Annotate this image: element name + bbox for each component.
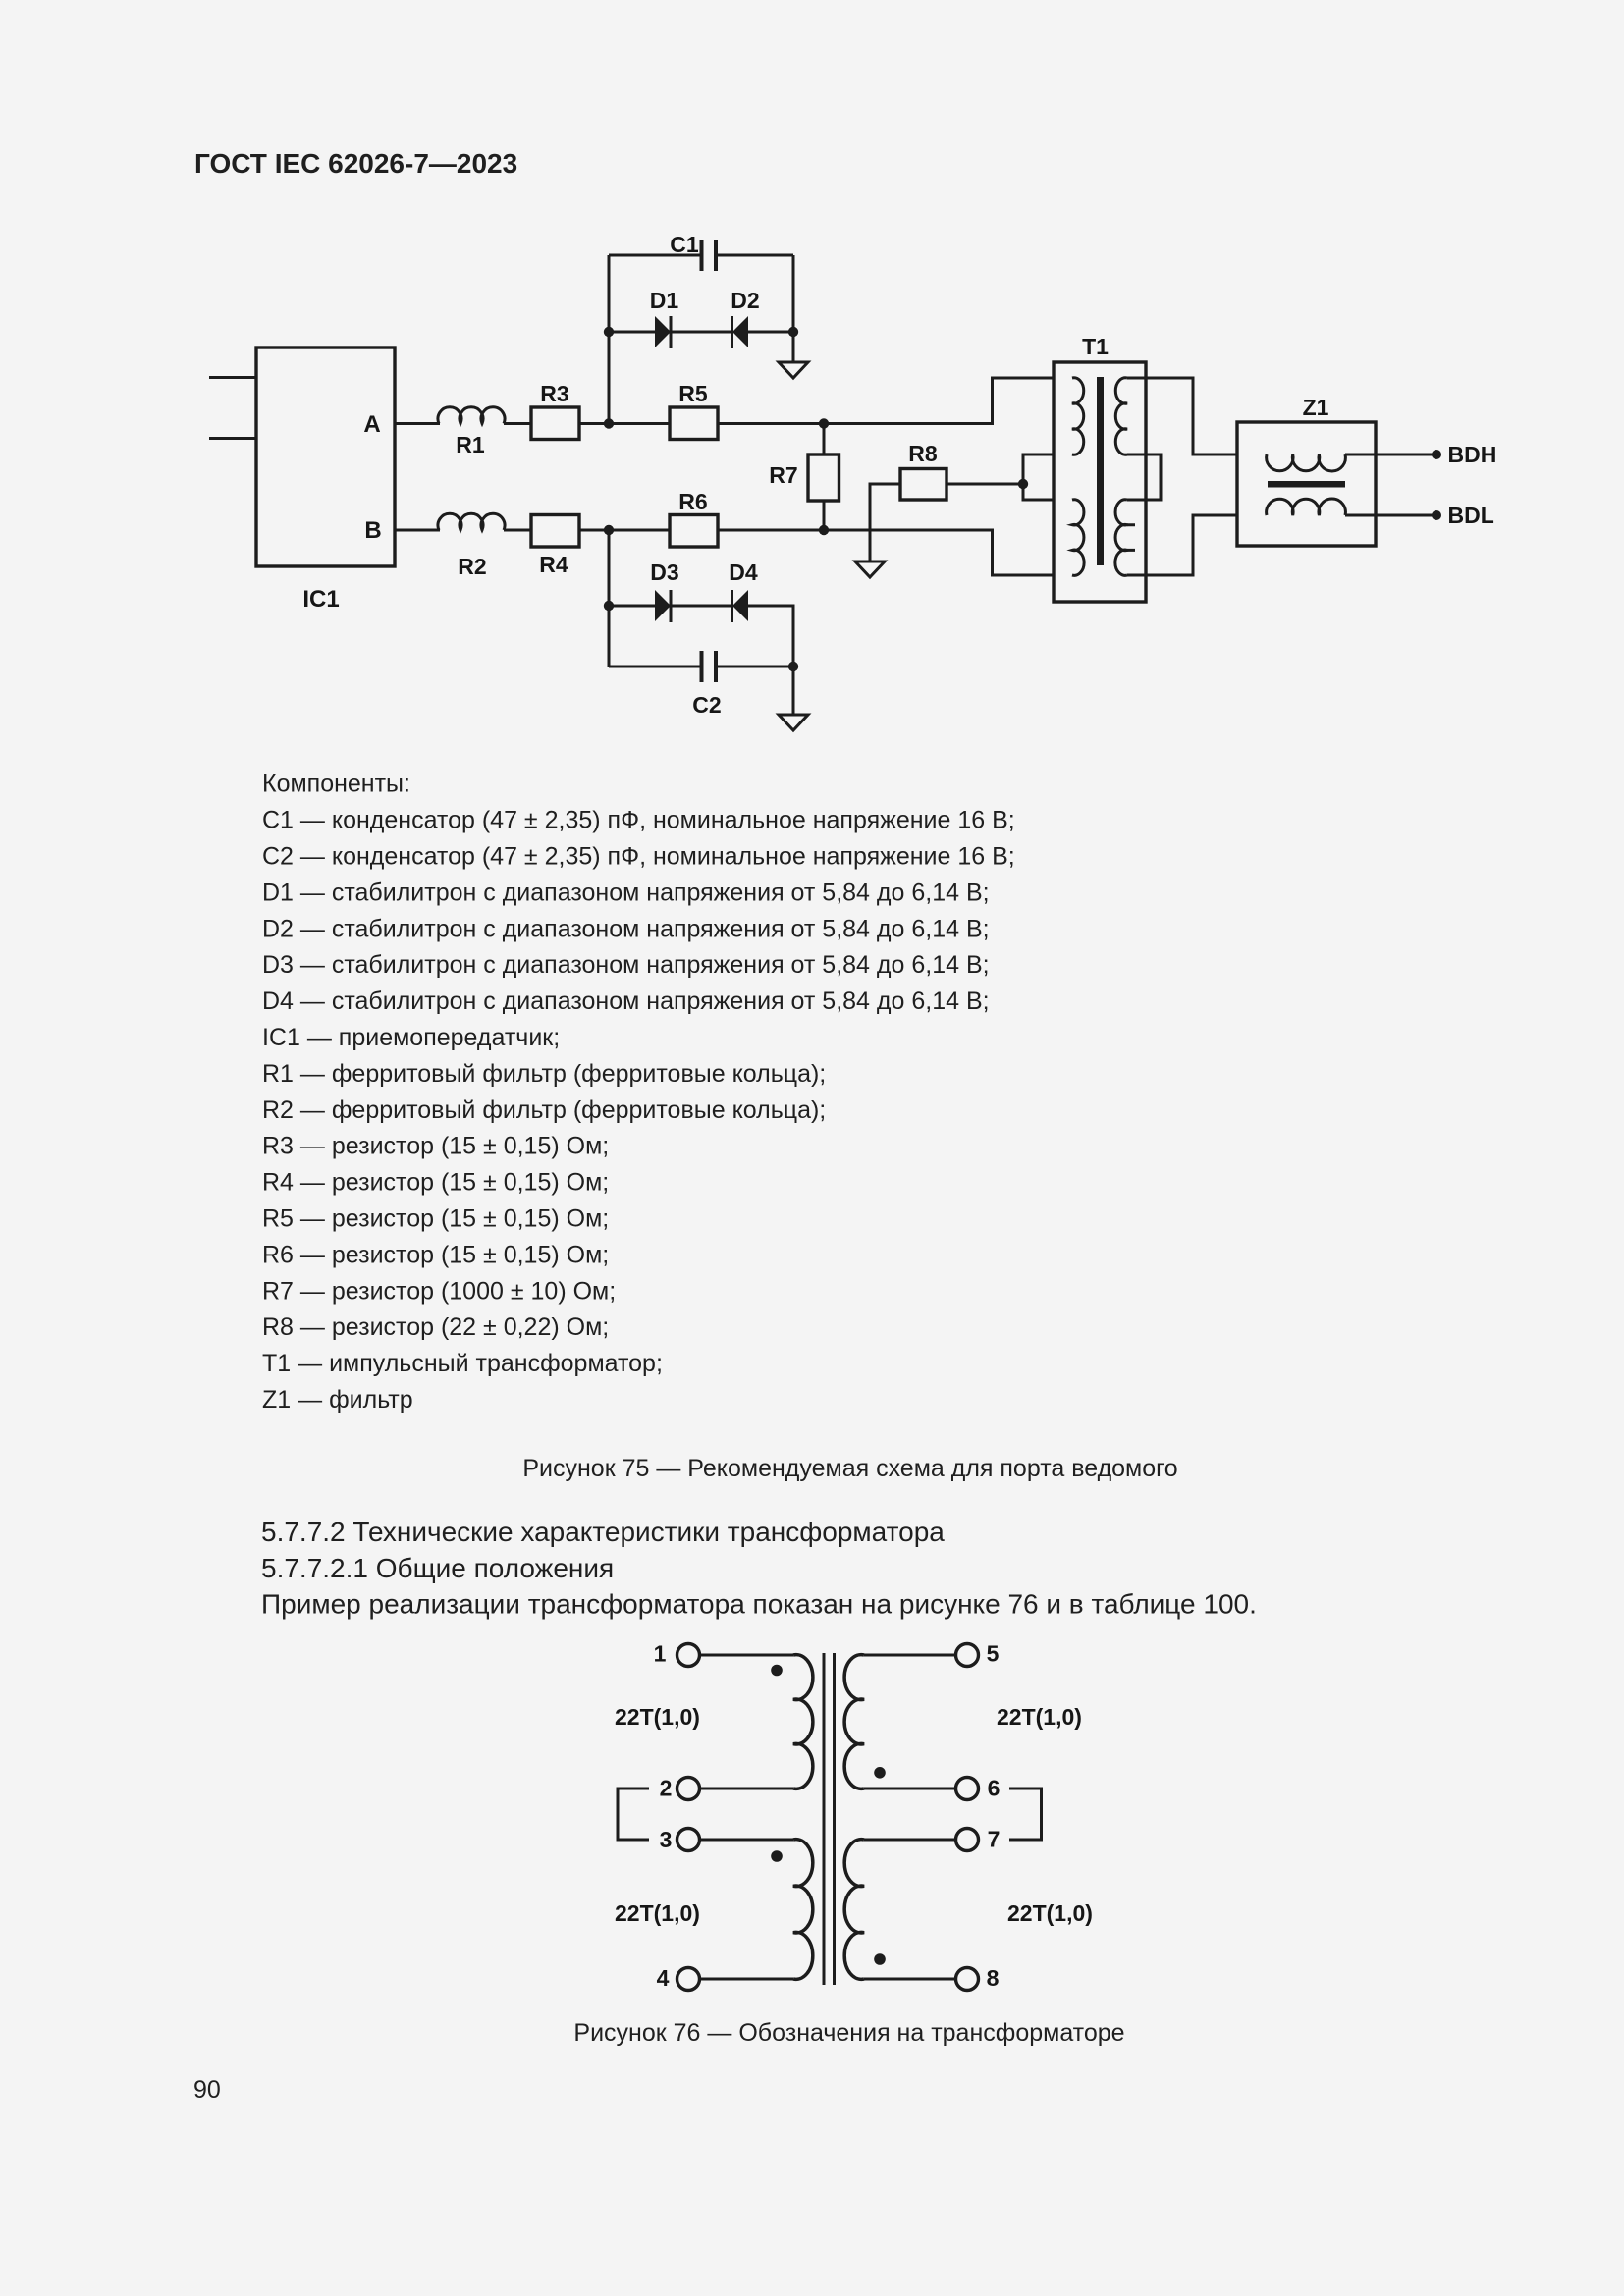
wire R6 to T1 corner: [718, 529, 994, 532]
wire T1 secondary bottom to Z1: [1127, 515, 1267, 575]
wire jumper bracket pins 2-3: [618, 1789, 649, 1840]
svg-text:R7: R7: [769, 462, 797, 488]
svg-text:Рисунок 75 — Рекомендуемая схе: Рисунок 75 — Рекомендуемая схема для пор…: [522, 1455, 1177, 1482]
wire IC1 input stub top: [209, 376, 256, 379]
polarity dot winding 3-4: [771, 1850, 783, 1862]
svg-text:D4 — стабилитрон с диапазоном: D4 — стабилитрон с диапазоном напряжения…: [262, 988, 990, 1015]
wire IC1 input stub bottom: [209, 437, 256, 440]
winding 1-2 (22T): [793, 1655, 813, 1789]
svg-text:2: 2: [660, 1776, 673, 1801]
svg-text:Рисунок 76 — Обозначения на тр: Рисунок 76 — Обозначения на трансформато…: [573, 2019, 1124, 2047]
resistor R7: [769, 424, 839, 531]
svg-text:R3: R3: [540, 381, 568, 406]
svg-text:1: 1: [654, 1641, 667, 1667]
pin 3 terminal: [660, 1827, 700, 1852]
svg-text:R2 — ферритовый фильтр (феррит: R2 — ферритовый фильтр (ферритовые кольц…: [262, 1096, 826, 1124]
svg-text:IC1 — приемопередатчик;: IC1 — приемопередатчик;: [262, 1024, 560, 1051]
svg-text:R4: R4: [539, 552, 568, 577]
winding 3-4 (22T): [793, 1840, 813, 1980]
wire pin5 to winding: [864, 1654, 956, 1657]
pin 1 terminal: [654, 1641, 700, 1667]
wire R4 to R6: [579, 529, 670, 532]
svg-text:R3 — резистор (15 ± 0,15) Ом;: R3 — резистор (15 ± 0,15) Ом;: [262, 1133, 609, 1160]
svg-text:R6: R6: [678, 489, 707, 514]
wire R3 to R5: [579, 422, 670, 425]
filter Z1: [1237, 395, 1376, 546]
resistor R8: [900, 441, 947, 500]
svg-text:Компоненты:: Компоненты:: [262, 771, 410, 798]
svg-text:8: 8: [987, 1965, 1000, 1991]
wire jumper bracket pins 6-7: [1009, 1789, 1042, 1840]
wire R1 to R3: [504, 422, 531, 425]
polarity dot winding 7-8: [874, 1953, 886, 1965]
svg-text:R6 — резистор (15 ± 0,15) Ом;: R6 — резистор (15 ± 0,15) Ом;: [262, 1241, 609, 1268]
svg-text:C1 — конденсатор (47 ± 2,35) п: C1 — конденсатор (47 ± 2,35) пФ, номинал…: [262, 807, 1015, 834]
wire Z1 to BDL: [1345, 514, 1434, 517]
wire R2 to R4: [504, 529, 531, 532]
transceiver IC1: [256, 347, 395, 613]
svg-text:D2: D2: [731, 288, 759, 313]
resistor R6: [670, 489, 718, 547]
svg-text:R2: R2: [458, 554, 486, 579]
pin 2 terminal: [660, 1776, 700, 1801]
svg-text:A: A: [363, 411, 380, 438]
svg-text:7: 7: [988, 1827, 1001, 1852]
wire T1 primary centre-tap bracket: [1023, 454, 1072, 500]
wire node to D1: [609, 331, 655, 334]
svg-text:R4 — резистор (15 ± 0,15) Ом;: R4 — резистор (15 ± 0,15) Ом;: [262, 1169, 609, 1197]
svg-text:IC1: IC1: [302, 586, 339, 613]
wire pin2 to winding: [700, 1788, 794, 1790]
svg-text:T1 — импульсный трансформатор;: T1 — импульсный трансформатор;: [262, 1350, 663, 1377]
wire node to D3: [609, 605, 655, 608]
svg-text:R1 — ферритовый фильтр (феррит: R1 — ферритовый фильтр (ферритовые кольц…: [262, 1060, 826, 1088]
svg-text:C1: C1: [670, 232, 699, 257]
svg-text:4: 4: [657, 1965, 670, 1991]
svg-text:D3 — стабилитрон с диапазоном: D3 — стабилитрон с диапазоном напряжения…: [262, 951, 990, 979]
wire pin4 to winding: [700, 1978, 794, 1981]
capacitor C2: [609, 651, 793, 718]
svg-text:D1 — стабилитрон с диапазоном: D1 — стабилитрон с диапазоном напряжения…: [262, 879, 990, 906]
wire IC1 pin A to R1: [395, 422, 440, 425]
svg-text:C2: C2: [692, 692, 721, 718]
resistor R4: [531, 515, 579, 578]
wire pin3 to winding: [700, 1839, 794, 1842]
wire to ground 2: [792, 667, 795, 715]
wire R8 left to ground drop: [870, 484, 900, 561]
svg-text:22Т(1,0): 22Т(1,0): [1007, 1900, 1093, 1926]
winding 5-6 (22T): [844, 1655, 864, 1789]
svg-text:R1: R1: [456, 432, 485, 457]
polarity dot winding 1-2: [771, 1665, 783, 1677]
svg-text:D2 — стабилитрон с диапазоном: D2 — стабилитрон с диапазоном напряжения…: [262, 915, 990, 942]
capacitor C1: [609, 232, 793, 271]
wire C1 right vertical: [792, 255, 795, 332]
svg-text:BDH: BDH: [1448, 442, 1497, 467]
wire D2 to ground branch: [748, 331, 793, 334]
svg-text:Пример реализации трансформато: Пример реализации трансформатора показан…: [261, 1589, 1257, 1620]
zener diode D4: [729, 560, 758, 622]
pin 4 terminal: [657, 1965, 700, 1991]
wire T1 secondary top to Z1: [1127, 378, 1267, 454]
resistor R5: [670, 381, 718, 440]
svg-text:22Т(1,0): 22Т(1,0): [615, 1704, 700, 1730]
svg-text:5: 5: [987, 1641, 1000, 1667]
node junction A-R7: [819, 418, 829, 428]
svg-text:R7 — резистор (1000 ± 10) Ом;: R7 — резистор (1000 ± 10) Ом;: [262, 1277, 616, 1305]
pin 8 terminal: [956, 1965, 1000, 1991]
ground symbol 2: [779, 715, 808, 730]
zener diode D2: [731, 288, 759, 348]
wire B down to T1 primary bottom: [993, 530, 1073, 575]
svg-text:3: 3: [660, 1827, 673, 1852]
svg-text:Z1: Z1: [1303, 395, 1329, 420]
svg-text:D4: D4: [729, 560, 758, 585]
node junction centre tap: [1018, 479, 1028, 489]
ground symbol 1: [779, 362, 808, 378]
wire D4 to C2 right vertical: [748, 606, 793, 667]
node junction D3 anode: [604, 601, 614, 611]
wire R5 to T1 corner: [718, 422, 994, 425]
svg-text:R5 — резистор (15 ± 0,15) Ом;: R5 — резистор (15 ± 0,15) Ом;: [262, 1205, 609, 1233]
wire to ground 1: [792, 332, 795, 362]
winding 7-8 (22T): [844, 1840, 864, 1980]
svg-text:BDL: BDL: [1448, 503, 1494, 528]
wire D3 to D4: [671, 605, 731, 608]
wire pin8 to winding: [864, 1978, 956, 1981]
wire pin6 to winding: [864, 1788, 956, 1790]
wire A up to T1 primary top: [993, 378, 1073, 424]
svg-text:B: B: [364, 517, 381, 544]
transformer core: [824, 1653, 835, 1985]
zener diode D1: [650, 288, 679, 348]
ground symbol 3: [855, 561, 885, 577]
svg-text:R8 — резистор (22 ± 0,22) Ом;: R8 — резистор (22 ± 0,22) Ом;: [262, 1313, 609, 1341]
node junction C2-ground: [788, 662, 798, 671]
pin 6 terminal: [956, 1776, 1001, 1801]
svg-text:90: 90: [193, 2076, 221, 2104]
resistor R3: [531, 381, 579, 440]
wire Z1 to BDH: [1345, 454, 1434, 456]
wire pin1 to winding: [700, 1654, 794, 1657]
svg-text:22Т(1,0): 22Т(1,0): [615, 1900, 700, 1926]
svg-text:5.7.7.2.1 Общие положения: 5.7.7.2.1 Общие положения: [261, 1553, 614, 1583]
ferrite filter R1: [438, 407, 505, 457]
zener diode D3: [650, 560, 678, 622]
ferrite filter R2: [438, 513, 505, 579]
wire D1 to D2: [671, 331, 731, 334]
wire node A to C1/D1 branch (left vertical): [608, 255, 611, 424]
node junction A-R3: [604, 418, 614, 428]
node junction D1 anode: [604, 327, 614, 337]
svg-text:ГОСТ IEC 62026-7—2023: ГОСТ IEC 62026-7—2023: [194, 148, 517, 179]
node junction D2 cathode: [788, 327, 798, 337]
pin 5 terminal: [956, 1641, 1000, 1667]
wire node B to D3/C2 branch (left vertical): [608, 530, 611, 667]
wire R8 to T1 centre tap: [947, 483, 1023, 486]
svg-text:6: 6: [988, 1776, 1001, 1801]
svg-text:Z1 — фильтр: Z1 — фильтр: [262, 1386, 413, 1414]
svg-text:R5: R5: [678, 381, 708, 406]
svg-text:D1: D1: [650, 288, 679, 313]
node BDL terminal: [1432, 510, 1441, 520]
svg-text:R8: R8: [908, 441, 938, 466]
svg-text:D3: D3: [650, 560, 678, 585]
node BDH terminal: [1432, 450, 1441, 459]
svg-text:5.7.7.2 Технические характерис: 5.7.7.2 Технические характеристики транс…: [261, 1517, 945, 1547]
wire T1 secondary bracket: [1127, 454, 1161, 500]
wire pin7 to winding: [864, 1839, 956, 1842]
svg-text:T1: T1: [1082, 334, 1109, 359]
wire IC1 pin B to R2: [395, 529, 440, 532]
pin 7 terminal: [956, 1827, 1001, 1852]
svg-text:22Т(1,0): 22Т(1,0): [997, 1704, 1082, 1730]
polarity dot winding 5-6: [874, 1767, 886, 1779]
node junction B-R7: [819, 525, 829, 535]
pulse transformer T1: [1054, 334, 1146, 602]
node junction B-R4: [604, 525, 614, 535]
svg-text:C2 — конденсатор (47 ± 2,35) п: C2 — конденсатор (47 ± 2,35) пФ, номинал…: [262, 843, 1015, 871]
